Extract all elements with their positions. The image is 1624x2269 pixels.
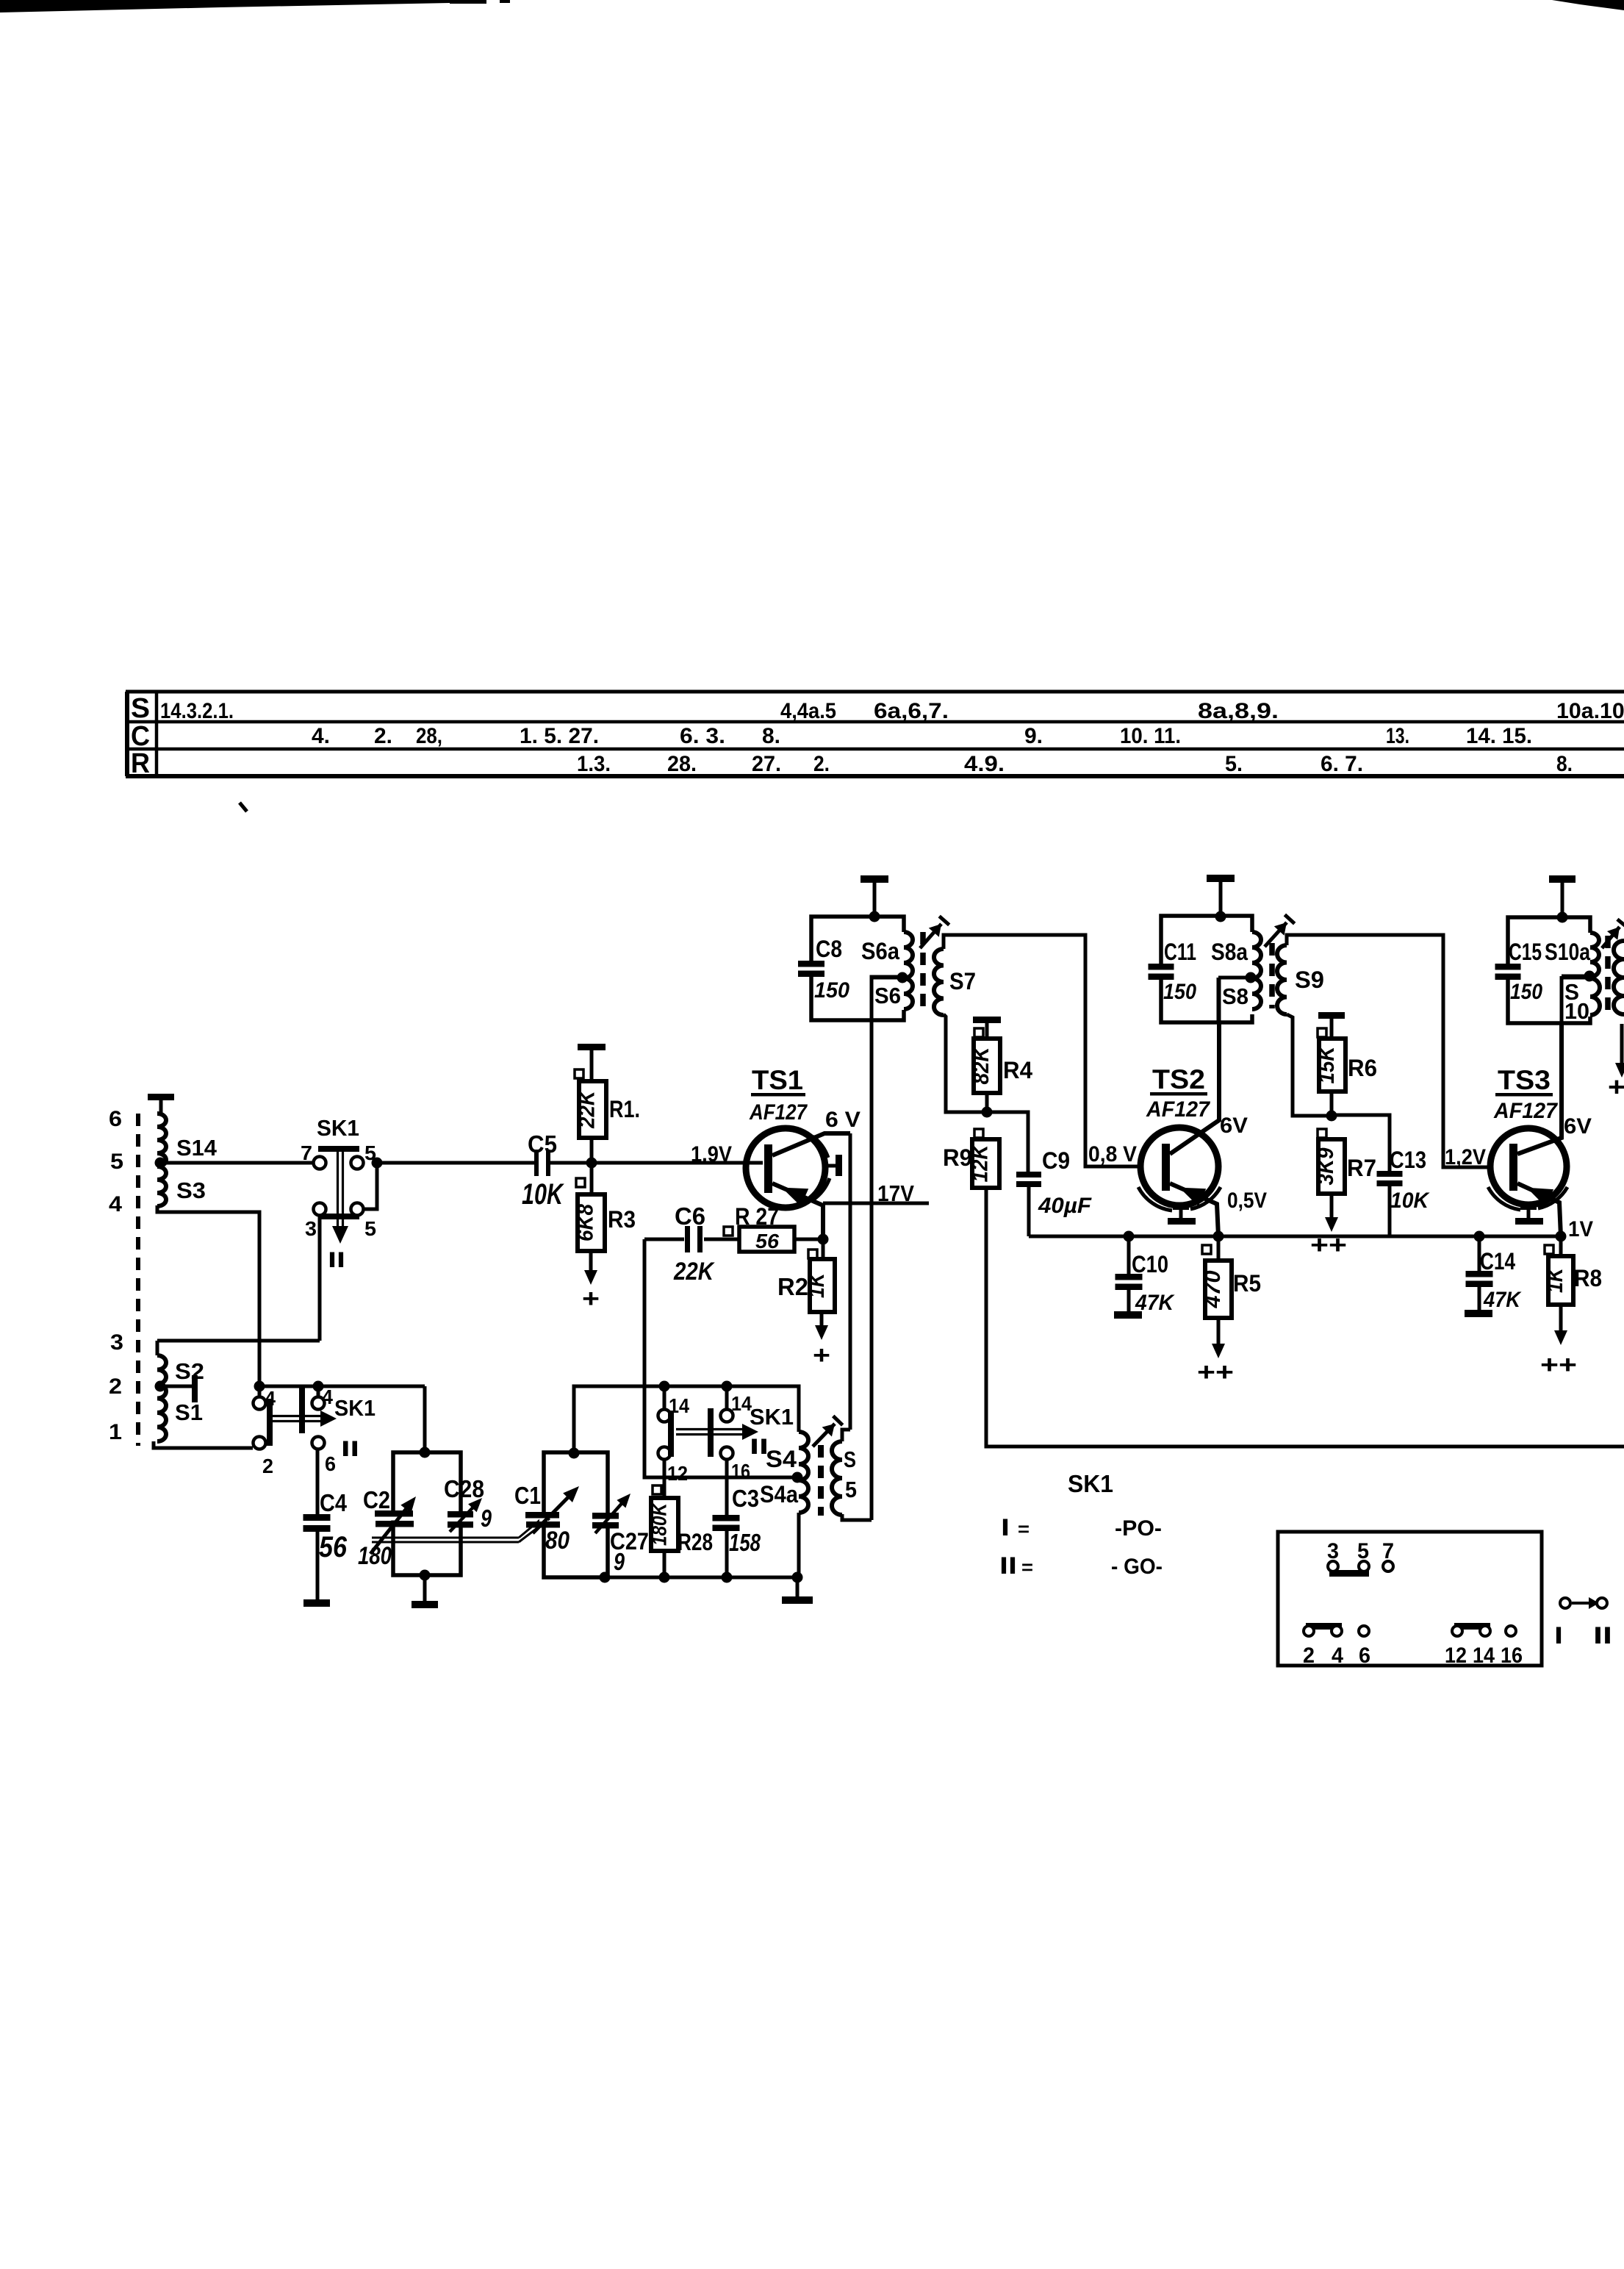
switch SK1 sec3 arrow [676, 1424, 758, 1440]
svg-text:- GO-: - GO- [1111, 1555, 1163, 1579]
svg-text:150: 150 [1510, 980, 1542, 1004]
legend I = [1001, 1514, 1030, 1541]
supply arrow R2 (+) [813, 1312, 830, 1369]
svg-text:S6: S6 [874, 983, 901, 1008]
ground C2 [412, 1601, 438, 1608]
tap number 6 [109, 1107, 122, 1131]
wire C1 top to S4 [574, 1386, 799, 1453]
ground C10 [1114, 1311, 1142, 1319]
tuning arrow T3 [1602, 920, 1624, 948]
svg-text:C2: C2 [363, 1486, 390, 1513]
TS1 emitter [772, 1183, 823, 1239]
contact 2 circle [254, 1437, 266, 1449]
svg-text:S4: S4 [766, 1446, 797, 1472]
pin 4R [322, 1386, 333, 1408]
wire base to R3 [590, 1163, 594, 1194]
node C2 bottom [420, 1570, 431, 1581]
svg-text:R 27: R 27 [735, 1203, 779, 1230]
svg-text:++: ++ [1310, 1231, 1347, 1259]
svg-text:C14: C14 [1480, 1248, 1515, 1275]
wire S9 bottom [1287, 1014, 1332, 1116]
wire C6 to R27 [704, 1238, 739, 1241]
svg-text:II: II [999, 1552, 1017, 1579]
svg-text:2: 2 [109, 1374, 122, 1399]
transistor TS1 body [746, 1128, 825, 1208]
legend II [1593, 1622, 1612, 1649]
svg-text:82K: 82K [969, 1045, 994, 1084]
node bus S4a [792, 1572, 803, 1583]
TS3 emitter [1517, 1183, 1561, 1236]
voltage 6V (TS3) [1564, 1114, 1592, 1139]
node S6 tap [897, 972, 908, 983]
svg-text:9: 9 [614, 1548, 625, 1575]
transformer core T2 [1269, 943, 1275, 1008]
coil S8 [1252, 978, 1261, 1009]
svg-text:AF127: AF127 [1146, 1097, 1210, 1122]
label S8 [1222, 983, 1248, 1009]
wire C13 down [1388, 1183, 1392, 1236]
table S row values [160, 699, 1624, 723]
svg-text:6V: 6V [1564, 1114, 1592, 1139]
contact 12 circle [658, 1447, 671, 1460]
voltage 0,5V [1227, 1189, 1267, 1213]
tap number 5 [110, 1150, 123, 1174]
capacitor C4 [303, 1514, 331, 1532]
label C5 [528, 1130, 557, 1158]
tap number 2 [109, 1374, 122, 1399]
svg-text:1K: 1K [1543, 1266, 1567, 1293]
svg-text:5: 5 [110, 1150, 123, 1174]
wire C5 to TS1 base [550, 1161, 763, 1165]
TS2 shield ground [1168, 1204, 1196, 1225]
transistor TS3 body [1490, 1128, 1567, 1205]
svg-text:R6: R6 [1348, 1055, 1377, 1081]
switch SK1 sec1 bridge bar [318, 1146, 359, 1152]
supply arrow R5 (++) [1197, 1318, 1234, 1386]
legend bridge 3-5 [1329, 1570, 1369, 1577]
TS2 emitter [1170, 1183, 1218, 1236]
wire C6 left [644, 1238, 684, 1241]
wire emitter to R5 [1217, 1236, 1221, 1261]
svg-text:1,9V: 1,9V [691, 1142, 732, 1166]
svg-text:12: 12 [667, 1462, 688, 1485]
wire R6 down [1330, 1092, 1334, 1116]
wire S1 bottom [154, 1441, 253, 1448]
svg-text:R28: R28 [678, 1529, 713, 1555]
wire TS2 collector up [1218, 978, 1221, 1022]
S8 label frame [1217, 978, 1221, 1022]
legend wiper symbol [1560, 1597, 1607, 1609]
pin 5 bottom [364, 1217, 376, 1240]
value 47K (C14) [1483, 1288, 1522, 1312]
capacitor C14 [1466, 1271, 1493, 1287]
svg-text:SK1: SK1 [750, 1404, 794, 1430]
wire contact5b to node [363, 1163, 377, 1209]
value 10K (C5) [522, 1178, 564, 1211]
svg-text:1: 1 [109, 1420, 122, 1444]
label S10 [1564, 979, 1589, 1024]
ground main bus [782, 1596, 813, 1604]
TS3 base bar [1509, 1144, 1517, 1191]
legend contact 3 [1328, 1561, 1338, 1571]
svg-text:0,5V: 0,5V [1227, 1189, 1267, 1213]
svg-text:8a,8,9.: 8a,8,9. [1198, 699, 1279, 723]
node S4 tap [792, 1472, 803, 1483]
coil S5 [832, 1441, 842, 1515]
value 47K (C10) [1135, 1291, 1175, 1315]
value 22K (C6) [673, 1258, 715, 1286]
wire TS3 collector up [1560, 976, 1564, 1023]
coil S9 [1277, 945, 1287, 1014]
label C28 [444, 1475, 484, 1502]
svg-text:4: 4 [322, 1386, 333, 1408]
legend contact 12 [1452, 1626, 1462, 1636]
svg-text:22K: 22K [575, 1089, 600, 1129]
capacitor C11 [1149, 964, 1174, 980]
label C10 [1132, 1251, 1168, 1277]
capacitor C2 (variable) [370, 1496, 416, 1554]
node bus C3 [722, 1572, 733, 1583]
svg-text:R: R [131, 748, 150, 779]
legend pins 3 5 7 [1327, 1539, 1394, 1563]
svg-text:80: 80 [545, 1527, 570, 1555]
label S1 [175, 1399, 203, 1425]
resistor R5 [1201, 1261, 1232, 1318]
label R2 [777, 1273, 808, 1300]
node junction 5 [372, 1158, 383, 1169]
svg-text:AF127: AF127 [749, 1100, 808, 1125]
svg-text:6 V: 6 V [825, 1108, 860, 1132]
pin 4L [265, 1387, 276, 1410]
label S9 [1295, 967, 1324, 993]
wire level4 bus [259, 1385, 425, 1388]
svg-text:10K: 10K [1390, 1189, 1430, 1213]
wire R4 to node [985, 1093, 989, 1112]
svg-text:+: + [582, 1285, 600, 1313]
wire S7 top to TS2 base [944, 935, 1140, 1166]
box C2/C28 [389, 1452, 465, 1575]
label S8a [1211, 939, 1248, 965]
label AF127 (TS3) [1493, 1099, 1558, 1123]
node sec3 left [659, 1381, 670, 1392]
wire S6 tap to line B [872, 976, 902, 980]
svg-text:2: 2 [262, 1455, 273, 1477]
pin 6 [325, 1452, 336, 1475]
value 9 (C27) [614, 1548, 625, 1575]
wire C14 down [1478, 1236, 1481, 1271]
node T1 top [869, 911, 880, 922]
wire node to C9 [987, 1112, 1028, 1172]
coil S6a [904, 932, 913, 978]
svg-text:S8: S8 [1222, 983, 1248, 1009]
coil S6 [904, 978, 913, 1009]
switch SK1 sec3 wiper bar [708, 1408, 714, 1457]
label TS1 [751, 1065, 805, 1097]
voltage 6 V (TS1) [825, 1108, 860, 1132]
label C2 [363, 1486, 390, 1513]
capacitor C3 branch [725, 1459, 729, 1515]
label S3 [176, 1177, 206, 1203]
wire tap to SK1 [160, 1161, 314, 1165]
label R1 [609, 1096, 640, 1122]
svg-text:3: 3 [110, 1330, 123, 1355]
label C1 [514, 1482, 541, 1509]
label S14 [176, 1135, 218, 1161]
wire S2 tap stub [160, 1385, 193, 1388]
svg-text:S9: S9 [1295, 967, 1324, 993]
node bus R28 [659, 1572, 670, 1583]
label R8 [1574, 1265, 1602, 1291]
wire 17V line [823, 1202, 929, 1205]
coil S8a [1252, 932, 1261, 978]
voltage 1,9V [691, 1142, 732, 1166]
legend contact 16 [1506, 1626, 1516, 1636]
switch SK1 sec1 wiper bar [318, 1214, 359, 1219]
wire S4a to bus [797, 1513, 801, 1577]
svg-text:R5: R5 [1233, 1270, 1261, 1297]
node bus C27 [600, 1572, 611, 1583]
TS1 shield terminal [828, 1155, 842, 1176]
pin 14R [731, 1392, 752, 1415]
contact 4L circle [254, 1397, 266, 1410]
marker square R7 [1318, 1129, 1326, 1138]
node TS1 emitter [818, 1234, 829, 1245]
label C9 [1042, 1147, 1070, 1174]
wire S8 tap left [1218, 976, 1251, 980]
value 150 (C11) [1163, 980, 1196, 1004]
stray mark below table [240, 803, 247, 811]
legend bridge 12-14 [1454, 1623, 1490, 1630]
node S2 tap [155, 1381, 166, 1392]
resistor R8 [1543, 1256, 1573, 1305]
svg-text:C: C [131, 721, 150, 752]
marker square R8 [1545, 1245, 1553, 1254]
coil S11 (cut) [1614, 941, 1624, 1014]
svg-text:158: 158 [729, 1529, 761, 1556]
svg-text:S14: S14 [176, 1135, 218, 1161]
switch SK1 sec2 arrow [272, 1410, 337, 1427]
tap number 3 [110, 1330, 123, 1355]
svg-text:6. 3.: 6. 3. [680, 724, 725, 748]
resistor R2 [805, 1259, 835, 1312]
trimmer C28 [448, 1498, 482, 1532]
label II sec1 [328, 1248, 345, 1272]
value 158 [729, 1529, 761, 1556]
legend contact 14 [1480, 1626, 1490, 1636]
svg-text:28.: 28. [667, 752, 697, 776]
svg-text:C9: C9 [1042, 1147, 1070, 1174]
transformer core T1 [920, 932, 926, 1010]
switch SK1 sec1 arrow [332, 1149, 348, 1244]
svg-text:4: 4 [1332, 1643, 1343, 1668]
table row label C [131, 721, 150, 752]
svg-text:S6a: S6a [861, 938, 899, 964]
label SK1 sec1 [317, 1115, 359, 1141]
svg-text:S: S [131, 693, 150, 724]
svg-text:R9: R9 [943, 1144, 972, 1171]
coil S4/S4a [799, 1432, 808, 1513]
coil S10a [1590, 933, 1599, 977]
svg-text:2: 2 [1303, 1643, 1315, 1668]
svg-text:1.3.: 1.3. [577, 752, 611, 776]
ferrite rod (dashed) [136, 1114, 140, 1446]
svg-text:S1: S1 [175, 1399, 203, 1425]
top-left scanner bar [0, 0, 510, 12]
svg-text:9.: 9. [1024, 724, 1043, 748]
wire node to C13 [1332, 1115, 1390, 1171]
svg-text:4,4a.5: 4,4a.5 [780, 699, 836, 723]
tuning arrow S4/S5 [813, 1416, 843, 1447]
contact 4R circle [312, 1397, 325, 1410]
value 150 (C15) [1510, 980, 1542, 1004]
pin 12 [667, 1462, 688, 1485]
capacitor C8 [798, 961, 824, 977]
label TS2 [1150, 1064, 1207, 1096]
ground bus [608, 1576, 799, 1580]
label AF127 (TS1) [749, 1100, 808, 1125]
supply arrow R8 (++) [1540, 1305, 1577, 1379]
top-right scanner wedge [1552, 0, 1624, 10]
wire R28 to bus [663, 1551, 667, 1577]
marker square R9 [974, 1129, 983, 1138]
supply arrow R3 (+) [582, 1251, 600, 1313]
label C8 [816, 936, 842, 962]
svg-text:+: + [813, 1341, 830, 1369]
wire S5 bottom [842, 1514, 872, 1520]
svg-text:8.: 8. [762, 724, 780, 748]
voltage 1,2V [1445, 1145, 1486, 1169]
svg-text:14.3.2.1.: 14.3.2.1. [160, 699, 234, 723]
ground C4 [303, 1599, 330, 1607]
legend contact 4 [1332, 1626, 1342, 1636]
node S8 tap [1246, 972, 1257, 983]
svg-text:180: 180 [358, 1542, 392, 1570]
node TS2 emitter [1213, 1231, 1224, 1242]
svg-text:3K9: 3K9 [1314, 1147, 1338, 1185]
svg-text:I: I [1554, 1622, 1563, 1649]
svg-text:3: 3 [305, 1217, 317, 1240]
label S5 [844, 1447, 857, 1502]
legend contact 7 [1383, 1561, 1393, 1571]
svg-text:S3: S3 [176, 1177, 206, 1203]
svg-text:14: 14 [1473, 1643, 1495, 1668]
svg-text:10. 11.: 10. 11. [1120, 724, 1181, 748]
wire level3 across [157, 1341, 320, 1355]
svg-text:10K: 10K [522, 1178, 564, 1211]
node S14/S3 tap [155, 1158, 166, 1169]
transformer core S4/S5 [818, 1445, 824, 1516]
svg-text:6. 7.: 6. 7. [1321, 752, 1363, 776]
wire emitter to R8 [1559, 1236, 1563, 1256]
wire R1 to base line [590, 1138, 594, 1163]
marker square R27 [724, 1227, 733, 1236]
TS1 shield arc [813, 1136, 830, 1200]
contact 14L circle [658, 1410, 671, 1422]
TS3 shield ground [1515, 1204, 1543, 1225]
svg-text:TS2: TS2 [1152, 1064, 1205, 1094]
svg-text:16: 16 [1501, 1643, 1523, 1668]
capacitor C10 [1115, 1274, 1143, 1290]
svg-text:47K: 47K [1483, 1288, 1522, 1312]
svg-text:150: 150 [814, 978, 849, 1003]
label S6a [861, 938, 899, 964]
wire S9 top to TS3 base [1287, 935, 1489, 1167]
wire C4 to ground [316, 1532, 320, 1599]
svg-text:++: ++ [1540, 1351, 1577, 1379]
svg-text:R4: R4 [1003, 1057, 1032, 1083]
switch SK1 sec3 bridge bar [668, 1411, 674, 1457]
svg-text:R1.: R1. [609, 1096, 640, 1122]
table C row values [312, 724, 1532, 748]
box T1 [811, 917, 904, 1020]
marker square R2 [808, 1250, 817, 1258]
label C13 [1390, 1147, 1426, 1173]
TS2 base bar [1162, 1144, 1170, 1191]
svg-text:6: 6 [1359, 1643, 1370, 1668]
TS3 collector [1517, 1023, 1562, 1154]
svg-text:C15: C15 [1509, 939, 1542, 965]
resistor R27 [739, 1227, 794, 1252]
svg-text:TS1: TS1 [752, 1065, 803, 1095]
marker square R4 [974, 1028, 983, 1037]
tuning arrow T1 [920, 917, 949, 948]
label SK1 sec3 [750, 1404, 794, 1430]
label R9 [943, 1144, 972, 1171]
svg-text:8.: 8. [1556, 752, 1573, 776]
node T2 top [1215, 911, 1226, 922]
capacitor C3 [713, 1515, 740, 1531]
label SK1 sec2 [334, 1395, 376, 1421]
wire C2 to ground [423, 1575, 427, 1601]
S6 label frame [872, 977, 902, 1020]
svg-text:27.: 27. [752, 752, 781, 776]
wire line B (S6 tap feedback) [870, 978, 874, 1520]
label C14 [1480, 1248, 1515, 1275]
resistor R1 [575, 1081, 607, 1138]
label S7 [949, 968, 976, 994]
tuning arrow T2 [1265, 915, 1295, 947]
svg-text:150: 150 [1163, 980, 1196, 1004]
label C6 [675, 1202, 705, 1230]
svg-text:S2: S2 [175, 1358, 204, 1384]
wire emitter to R2 [822, 1239, 825, 1259]
wire R27 to emitter [794, 1238, 823, 1241]
wire R9 down and AGC line [986, 1188, 1624, 1447]
svg-text:0,8 V: 0,8 V [1088, 1142, 1137, 1166]
node T3 top [1557, 912, 1568, 923]
wire line A (TS1 collector feedback) [849, 1133, 852, 1430]
wire C9 down [1027, 1184, 1031, 1236]
label R4 [1003, 1057, 1032, 1083]
legend -GO- [1111, 1555, 1163, 1579]
contact 5t circle [351, 1157, 364, 1169]
label SK1 legend title [1068, 1470, 1113, 1497]
svg-text:1V: 1V [1568, 1217, 1593, 1241]
svg-text:13.: 13. [1386, 724, 1409, 748]
rail R1 [578, 1044, 606, 1081]
capacitor C6 [685, 1226, 703, 1252]
rail R6 [1318, 1012, 1345, 1039]
svg-text:S10a: S10a [1545, 939, 1590, 965]
svg-text:7: 7 [301, 1141, 312, 1164]
svg-text:1,2V: 1,2V [1445, 1145, 1486, 1169]
svg-text:C10: C10 [1132, 1251, 1168, 1277]
wire S7 bottom to divider [944, 1014, 1028, 1112]
legend contact 5 [1359, 1561, 1369, 1571]
TS2 shield arc [1138, 1187, 1221, 1211]
table row label R [131, 748, 150, 779]
voltage 0,8 V [1088, 1142, 1137, 1166]
